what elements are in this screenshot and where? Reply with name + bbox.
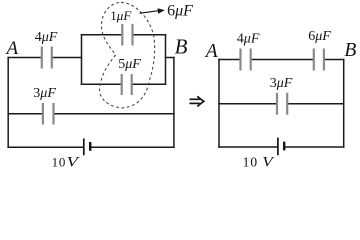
wire: left circuit bottom wire left of battery (8, 146, 82, 148)
wire: inner box bottom edge right of 5uF (133, 83, 166, 85)
capacitor 5uF plates (122, 74, 132, 95)
svg-text:A: A (5, 38, 19, 59)
wire: right circuit bottom wire left of battery (219, 146, 277, 148)
svg-text:4μF: 4μF (35, 30, 58, 45)
wire: right circuit top wire A to 4uF (219, 59, 239, 61)
battery 10V (left circuit) long plate (83, 139, 85, 156)
svg-text:4μF: 4μF (237, 32, 260, 47)
wire: right circuit middle branch right of 3uF (288, 103, 343, 105)
wire: left circuit bottom wire right of battery (91, 146, 174, 148)
wire: inner box to node B (166, 57, 174, 59)
svg-text:1μF: 1μF (110, 8, 132, 23)
capacitor 4uF plates (right circuit) (241, 49, 251, 71)
wire: left circuit right edge (173, 58, 175, 148)
dashed grouping loop around 1uF and 5uF (100, 2, 155, 108)
wire: right circuit left edge (218, 60, 220, 148)
wire: inner box bottom edge left of 5uF (82, 83, 121, 85)
svg-text:A: A (204, 41, 218, 62)
arrow from loop to 6uF label (140, 8, 165, 13)
svg-text:10: 10 (52, 154, 67, 169)
svg-text:V: V (67, 153, 80, 170)
wire: left circuit top wire from 4uF to inner box (53, 57, 82, 59)
capacitor 4uF plates (left circuit) (42, 47, 52, 69)
wire: right circuit bottom wire right of battery (286, 146, 344, 148)
wire: inner box top edge right of 1uF (134, 34, 166, 36)
capacitor 1uF plates (122, 24, 132, 46)
svg-text:10: 10 (243, 155, 259, 170)
svg-text:B: B (175, 35, 188, 59)
wire: right circuit middle branch left of 3uF (219, 103, 276, 105)
svg-text:6μF: 6μF (167, 3, 193, 20)
wire: left circuit middle branch left of 3uF (8, 113, 42, 115)
wire: right circuit top wire 6uF to B (325, 59, 344, 61)
battery 10V (left circuit) short plate (89, 142, 91, 151)
capacitor 3uF plates (left circuit) (43, 103, 54, 125)
wire: right circuit top wire 4uF to 6uF (252, 59, 313, 61)
battery 10V (right circuit) long plate (277, 138, 279, 156)
implies arrow between circuits (190, 96, 204, 106)
svg-text:3μF: 3μF (270, 76, 293, 91)
wire: right circuit right edge (343, 60, 345, 148)
capacitor 6uF plates (right circuit) (314, 49, 324, 71)
wire: left circuit left edge (7, 58, 9, 148)
svg-text:B: B (344, 40, 356, 61)
svg-text:6μF: 6μF (308, 29, 331, 44)
wire: left circuit top wire from A to 4uF (8, 57, 40, 59)
svg-text:3μF: 3μF (33, 86, 56, 101)
svg-text:5μF: 5μF (118, 57, 141, 72)
battery 10V (right circuit) short plate (283, 142, 285, 151)
wire: left circuit middle branch right of 3uF (55, 113, 174, 115)
wire: inner box top edge left of 1uF (82, 34, 122, 36)
capacitor 3uF plates (right circuit) (277, 93, 287, 115)
wire: inner box right edge (165, 35, 167, 84)
wire: inner box left edge (81, 35, 83, 84)
